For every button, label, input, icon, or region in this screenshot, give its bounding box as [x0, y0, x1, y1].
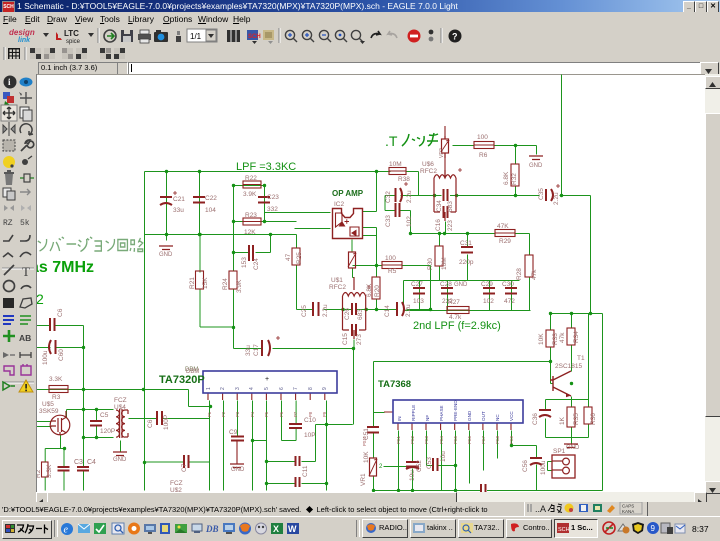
svg-text:100: 100 — [385, 255, 396, 262]
svg-text:R32: R32 — [511, 173, 518, 185]
svg-text:VR2: VR2 — [439, 148, 445, 158]
svg-text:6: 6 — [279, 387, 285, 390]
svg-text:3.9K: 3.9K — [236, 279, 243, 293]
svg-text:design: design — [9, 28, 35, 37]
svg-text:153: 153 — [241, 257, 248, 268]
svg-text:4: 4 — [249, 387, 255, 390]
svg-text:X: X — [273, 524, 279, 534]
svg-text:6.8K: 6.8K — [366, 283, 373, 297]
svg-text:9: 9 — [651, 524, 656, 533]
svg-text:R35: R35 — [573, 413, 580, 425]
svg-text:CAPS: CAPS — [622, 504, 634, 509]
svg-text:P4: P4 — [250, 411, 255, 417]
svg-text:C14: C14 — [384, 305, 391, 317]
svg-text:spice: spice — [66, 39, 81, 45]
svg-text:RFC2: RFC2 — [329, 284, 346, 291]
svg-text:OP AMP: OP AMP — [332, 189, 364, 198]
svg-text:12K: 12K — [244, 229, 256, 236]
svg-text:6.8K: 6.8K — [503, 171, 510, 185]
svg-text:C7: C7 — [181, 463, 188, 472]
svg-text:LPF =3.3KC: LPF =3.3KC — [236, 161, 296, 173]
svg-text:?: ? — [452, 32, 458, 42]
svg-text:3: 3 — [235, 387, 241, 390]
svg-text:GND: GND — [529, 163, 543, 169]
svg-text:R6: R6 — [479, 152, 488, 159]
svg-text:C16: C16 — [435, 219, 442, 231]
svg-text:FCZ: FCZ — [114, 397, 127, 404]
svg-text:P2: P2 — [221, 411, 226, 417]
svg-text:5: 5 — [264, 387, 270, 390]
svg-text:47: 47 — [285, 253, 292, 261]
svg-text:NC: NC — [495, 414, 500, 421]
svg-text:TA7320P: TA7320P — [159, 374, 205, 386]
svg-text:220p: 220p — [459, 259, 474, 266]
svg-text:R24: R24 — [222, 278, 229, 290]
svg-text:223: 223 — [447, 220, 454, 231]
svg-text:R20: R20 — [374, 285, 381, 297]
svg-text:R3: R3 — [52, 394, 61, 401]
svg-text:C25: C25 — [301, 305, 308, 317]
svg-text:C51: C51 — [363, 428, 370, 440]
svg-text:..A: ..A — [535, 504, 546, 514]
svg-text:100: 100 — [477, 134, 488, 141]
svg-text:PS4: PS4 — [439, 435, 444, 444]
svg-text:10M: 10M — [389, 161, 402, 168]
svg-text:100P: 100P — [163, 415, 170, 430]
svg-text:3.9K: 3.9K — [243, 191, 257, 198]
svg-text:P3: P3 — [235, 411, 240, 417]
svg-text:10u: 10u — [440, 451, 447, 462]
svg-text:C52: C52 — [416, 460, 423, 472]
svg-text:PS3: PS3 — [424, 435, 429, 444]
svg-text:T: T — [22, 264, 30, 279]
svg-text:4.7k: 4.7k — [449, 314, 462, 321]
svg-text:2nd LPF (f=2.9kc): 2nd LPF (f=2.9kc) — [413, 320, 501, 332]
svg-text:3.3K: 3.3K — [46, 464, 53, 478]
svg-text:R28: R28 — [516, 268, 523, 280]
svg-text:2.2u: 2.2u — [322, 304, 329, 317]
svg-text:C9: C9 — [229, 429, 238, 436]
svg-text:U$1: U$1 — [331, 277, 343, 284]
svg-text:KANA: KANA — [622, 509, 634, 514]
svg-text:PHASE: PHASE — [439, 405, 444, 421]
svg-text:C35: C35 — [538, 188, 545, 200]
svg-text:U$5: U$5 — [42, 401, 54, 408]
svg-text:100u: 100u — [42, 350, 49, 365]
svg-text:R38: R38 — [398, 176, 410, 183]
svg-text:DB: DB — [205, 524, 219, 534]
svg-text:IN: IN — [397, 416, 402, 421]
svg-text:OUT: OUT — [481, 411, 486, 421]
svg-text:U$4: U$4 — [114, 404, 126, 411]
svg-text:R22: R22 — [245, 175, 257, 182]
svg-text:1K: 1K — [559, 416, 566, 425]
svg-text:R5: R5 — [388, 268, 397, 275]
svg-text:PS2: PS2 — [410, 435, 415, 444]
svg-text:R25: R25 — [296, 252, 303, 264]
svg-text:U$6: U$6 — [422, 161, 434, 168]
svg-text:C26: C26 — [344, 308, 351, 320]
svg-text:P6: P6 — [279, 411, 284, 417]
svg-text:683: 683 — [357, 309, 364, 320]
svg-text:8: 8 — [308, 387, 314, 390]
svg-text:PS5: PS5 — [453, 435, 458, 444]
svg-text:2.2u: 2.2u — [553, 192, 560, 205]
svg-text:GND: GND — [566, 445, 580, 451]
svg-text:2SC1815: 2SC1815 — [555, 363, 582, 370]
svg-text:GND: GND — [159, 252, 173, 258]
svg-text:C30: C30 — [502, 281, 514, 288]
svg-text:683: 683 — [447, 201, 454, 212]
svg-text:SCH: SCH — [558, 527, 569, 533]
svg-text:C11: C11 — [302, 465, 309, 477]
svg-text:2.2u: 2.2u — [406, 190, 413, 203]
svg-text:PS7: PS7 — [481, 435, 486, 444]
svg-text:10P: 10P — [304, 432, 316, 439]
svg-text:FCZ: FCZ — [170, 480, 183, 487]
svg-text:C3: C3 — [74, 459, 83, 466]
svg-text:103: 103 — [413, 298, 424, 305]
svg-text:as 7MHz: as 7MHz — [37, 259, 94, 276]
svg-text:VR1: VR1 — [360, 473, 367, 486]
svg-text:R29: R29 — [499, 238, 511, 245]
svg-text:2: 2 — [37, 291, 44, 307]
svg-text:NF: NF — [425, 415, 430, 421]
svg-text:47k: 47k — [531, 269, 538, 280]
svg-text:10M: 10M — [441, 257, 448, 270]
svg-text:120P: 120P — [100, 428, 115, 435]
svg-text:RIPPLE: RIPPLE — [411, 405, 416, 421]
svg-text:33u: 33u — [245, 345, 252, 356]
svg-text:link: link — [18, 37, 31, 44]
svg-text:15K: 15K — [202, 277, 209, 289]
svg-text:C60: C60 — [58, 349, 65, 361]
svg-text:PS6: PS6 — [467, 435, 472, 444]
svg-text:IC2: IC2 — [334, 201, 345, 208]
svg-text:.T: .T — [385, 133, 398, 149]
svg-text:33u: 33u — [173, 207, 184, 214]
svg-text:C32: C32 — [385, 191, 392, 203]
svg-text:2: 2 — [220, 387, 226, 390]
svg-text:GND: GND — [467, 410, 472, 421]
svg-text:R27: R27 — [448, 299, 460, 306]
svg-text:+: + — [265, 376, 269, 383]
svg-text:9: 9 — [322, 387, 328, 390]
svg-text:GND: GND — [113, 457, 127, 463]
svg-text:SP1: SP1 — [553, 448, 566, 455]
svg-text:GND: GND — [454, 282, 468, 288]
svg-text:C17: C17 — [253, 344, 260, 356]
svg-text:C15: C15 — [342, 333, 349, 345]
svg-text:7: 7 — [293, 387, 299, 390]
svg-text:C6: C6 — [57, 308, 64, 317]
svg-text:C27: C27 — [411, 281, 423, 288]
svg-text:TA7368: TA7368 — [378, 379, 411, 390]
svg-text:C34: C34 — [436, 200, 443, 212]
svg-text:1/1: 1/1 — [190, 32, 202, 41]
svg-text:102: 102 — [406, 216, 413, 227]
svg-text:2.2u: 2.2u — [405, 304, 412, 317]
svg-text:PS9: PS9 — [509, 435, 514, 444]
svg-text:C24: C24 — [253, 258, 260, 270]
svg-text:C4: C4 — [87, 459, 96, 466]
svg-text:C21: C21 — [173, 196, 185, 203]
svg-text:3.3K: 3.3K — [49, 376, 63, 383]
svg-text:C22: C22 — [205, 195, 217, 202]
svg-text:C53: C53 — [426, 457, 433, 469]
svg-text:47k: 47k — [559, 332, 566, 343]
svg-text:PRE-END: PRE-END — [453, 400, 458, 421]
svg-text:C33: C33 — [385, 215, 392, 227]
svg-text:C28: C28 — [440, 281, 452, 288]
svg-text:R33: R33 — [552, 333, 559, 345]
svg-text:10K: 10K — [538, 333, 545, 345]
svg-text:C23: C23 — [267, 194, 279, 201]
svg-text:e: e — [64, 525, 69, 536]
svg-text:RZ: RZ — [3, 219, 13, 228]
svg-text:LTC: LTC — [64, 29, 79, 38]
svg-text:W: W — [288, 524, 297, 534]
svg-text:T1: T1 — [577, 355, 585, 362]
svg-text:VCC: VCC — [509, 411, 514, 421]
svg-text:PS1: PS1 — [396, 435, 401, 444]
svg-text:P5: P5 — [264, 411, 269, 417]
svg-text:47K: 47K — [497, 223, 509, 230]
svg-text:273: 273 — [356, 334, 363, 345]
svg-text:R21: R21 — [189, 277, 196, 289]
svg-text:100u: 100u — [540, 460, 547, 475]
svg-text:104: 104 — [205, 207, 216, 214]
svg-text:2: 2 — [379, 464, 383, 470]
svg-text:P7: P7 — [293, 411, 298, 417]
svg-text:RFC2: RFC2 — [420, 168, 437, 175]
svg-text:10u: 10u — [409, 470, 416, 481]
svg-text:C36: C36 — [532, 413, 539, 425]
svg-text:R36: R36 — [590, 413, 597, 425]
svg-text:AB: AB — [19, 333, 31, 343]
svg-text:332: 332 — [267, 206, 278, 213]
svg-text:SCH: SCH — [248, 34, 261, 40]
svg-text:R30: R30 — [427, 258, 434, 270]
svg-text:C6: C6 — [147, 419, 154, 428]
svg-text:P1: P1 — [207, 411, 212, 417]
svg-text:C31: C31 — [460, 240, 472, 247]
svg-text:R2: R2 — [37, 469, 42, 478]
svg-text:10K: 10K — [363, 451, 370, 463]
svg-text:C29: C29 — [481, 281, 493, 288]
svg-text:GND: GND — [231, 467, 245, 473]
svg-text:472: 472 — [504, 298, 515, 305]
svg-text:5k: 5k — [20, 219, 30, 228]
svg-text:PS8: PS8 — [495, 435, 500, 444]
svg-text:102: 102 — [483, 298, 494, 305]
svg-text:C56: C56 — [522, 460, 529, 472]
svg-text:R23: R23 — [245, 212, 257, 219]
svg-text:P9: P9 — [322, 411, 327, 417]
svg-text:1: 1 — [206, 387, 212, 390]
svg-text:C5: C5 — [100, 412, 109, 419]
svg-text:DBM: DBM — [186, 369, 199, 375]
svg-text:R34: R34 — [573, 331, 580, 343]
svg-text:3SK59: 3SK59 — [39, 408, 59, 415]
svg-text:C10: C10 — [304, 417, 316, 424]
